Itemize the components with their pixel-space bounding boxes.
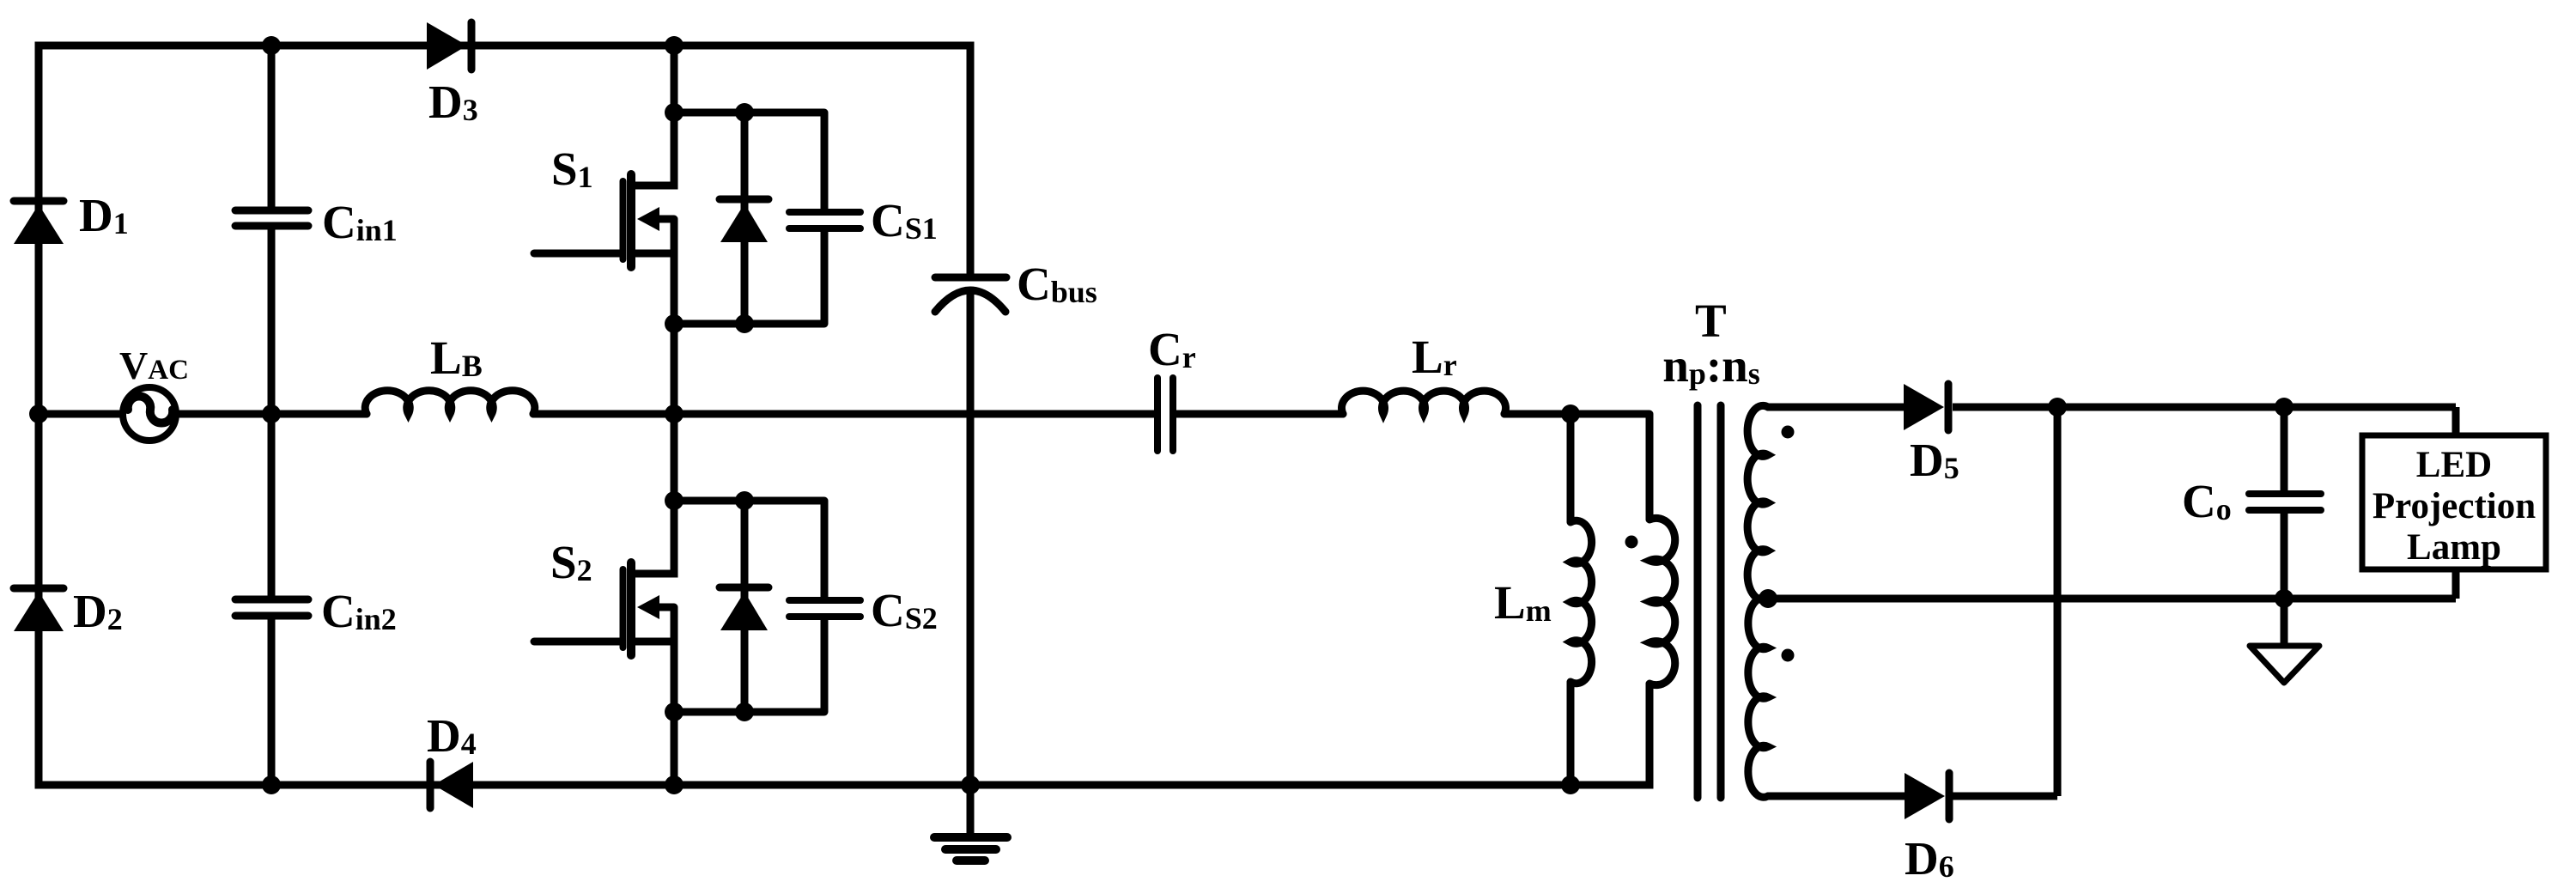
wire D5 to output xyxy=(1953,404,2456,411)
svg-text:D4: D4 xyxy=(427,709,477,762)
svg-text:CS2: CS2 xyxy=(871,584,938,636)
wire output bottom rise xyxy=(2452,569,2460,599)
wire center tap xyxy=(1768,595,2456,603)
node junction at 785,131 xyxy=(665,103,683,122)
capacitor Co xyxy=(2182,407,2321,599)
source VAC xyxy=(119,344,189,441)
node junction at 867,131 xyxy=(735,103,754,122)
svg-text:VAC: VAC xyxy=(119,344,189,387)
node junction at 785,377 xyxy=(665,314,683,333)
wire mid rail LB to Cr xyxy=(533,411,1155,418)
ground xyxy=(934,837,1007,861)
svg-text:D6: D6 xyxy=(1905,832,1954,885)
wire bottom rail xyxy=(39,781,1649,789)
wire rectifier riser xyxy=(2054,407,2062,796)
svg-text:S2: S2 xyxy=(550,536,592,588)
capacitor CS1 xyxy=(789,113,938,324)
svg-text:Cin1: Cin1 xyxy=(322,196,398,248)
svg-text:D2: D2 xyxy=(73,585,123,637)
transformer secondary top phase dot xyxy=(1782,426,1795,439)
body diode of S2 xyxy=(720,501,769,712)
diode D4 xyxy=(427,709,477,808)
svg-text:D1: D1 xyxy=(79,189,129,241)
wire secondary bottom to D6 xyxy=(1768,793,1905,800)
svg-text:Lm: Lm xyxy=(1494,576,1552,629)
inductor Lr xyxy=(1342,331,1506,414)
capacitor Cr xyxy=(1148,323,1196,451)
svg-text:Cbus: Cbus xyxy=(1017,258,1097,310)
svg-text:Projection: Projection xyxy=(2372,486,2536,526)
diode D1 xyxy=(14,189,129,244)
output ground xyxy=(2250,599,2319,683)
diode D3 xyxy=(427,22,478,128)
node junction at 867,583 xyxy=(735,491,754,510)
transformer primary phase dot xyxy=(1625,536,1638,549)
node junction at 1829,914 xyxy=(1561,775,1580,794)
wire half-bridge top xyxy=(671,46,678,113)
wire node to transformer primary xyxy=(1571,411,1649,418)
svg-text:S1: S1 xyxy=(551,143,593,195)
svg-text:np:ns: np:ns xyxy=(1662,339,1760,392)
LED projection lamp box xyxy=(2362,435,2546,569)
node junction at 316,914 xyxy=(262,775,281,794)
node junction at 785,583 xyxy=(665,491,683,510)
node junction at 785,829 xyxy=(665,702,683,721)
transformer core xyxy=(1698,405,1721,798)
mosfet S1 xyxy=(534,113,824,324)
wire half-bridge S1 to S2 xyxy=(671,324,678,501)
node junction at 2660,697 xyxy=(2275,589,2293,608)
transformer secondary bottom winding xyxy=(1748,598,1768,798)
svg-text:D5: D5 xyxy=(1910,434,1959,486)
node junction at 867,829 xyxy=(735,702,754,721)
transformer secondary bottom phase dot xyxy=(1782,649,1795,662)
node junction at 2059,697 xyxy=(1759,589,1777,608)
svg-text:Co: Co xyxy=(2182,475,2232,527)
node junction at 1829,482 xyxy=(1561,404,1580,423)
capacitor Cin1 xyxy=(235,46,398,414)
svg-text:D3: D3 xyxy=(428,76,478,128)
wire mid rail Cr to Lr xyxy=(1176,411,1343,418)
transformer T label xyxy=(1695,295,1727,347)
svg-text:CS1: CS1 xyxy=(871,194,938,246)
transformer T primary winding xyxy=(1649,414,1675,785)
diode D5 xyxy=(1904,384,1959,486)
wire secondary top to D5 xyxy=(1768,404,1904,411)
diode D2 xyxy=(14,585,123,637)
inductor Lm xyxy=(1494,414,1592,785)
wire mid rail left xyxy=(39,411,121,418)
wire left rail xyxy=(35,46,43,785)
body diode of S1 xyxy=(720,113,769,324)
mosfet S2 xyxy=(534,501,824,712)
wire output top drop xyxy=(2452,407,2460,435)
node junction at 316,53 xyxy=(262,36,281,55)
node junction at 867,377 xyxy=(735,314,754,333)
svg-text:LB: LB xyxy=(430,331,483,384)
wire mid rail VAC to LB xyxy=(178,411,367,418)
capacitor CS2 xyxy=(789,501,938,712)
node junction at 2660,474 xyxy=(2275,398,2293,417)
node junction at 1130,914 xyxy=(961,775,980,794)
wire D6 to riser xyxy=(1953,793,2057,800)
node junction at 785,914 xyxy=(665,775,683,794)
svg-text:Lr: Lr xyxy=(1412,331,1457,383)
transformer ratio label xyxy=(1662,339,1760,392)
transformer secondary top winding xyxy=(1747,405,1768,599)
svg-text:Lamp: Lamp xyxy=(2407,527,2501,568)
node junction at 785,53 xyxy=(665,36,683,55)
svg-text:LED: LED xyxy=(2416,445,2492,485)
wire mid rail Lr to node xyxy=(1504,411,1571,418)
node junction at 2396,474 xyxy=(2048,398,2067,417)
capacitor Cbus xyxy=(935,46,1097,836)
svg-text:Cin2: Cin2 xyxy=(321,585,397,637)
wire half-bridge bottom xyxy=(671,712,678,785)
inductor LB xyxy=(365,331,534,414)
node junction at 45,482 xyxy=(29,404,48,423)
svg-text:Cr: Cr xyxy=(1148,323,1196,375)
capacitor Cin2 xyxy=(235,414,397,785)
diode D6 xyxy=(1905,773,1954,885)
node junction at 316,482 xyxy=(262,404,281,423)
wire top rail xyxy=(39,42,970,50)
node junction at 785,482 xyxy=(665,404,683,423)
